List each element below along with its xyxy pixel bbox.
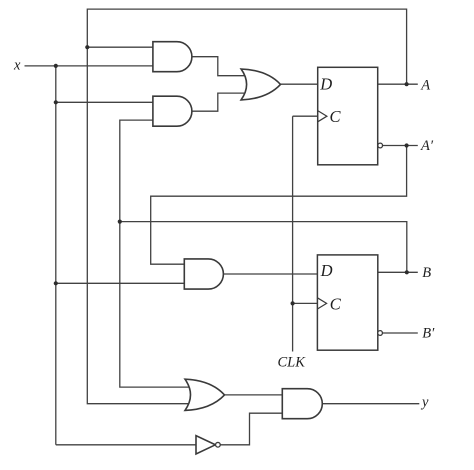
wire: CLK branch to FF2 C input bbox=[293, 302, 318, 304]
node: x to AND3 junction bbox=[54, 281, 58, 285]
svg-text:D: D bbox=[320, 261, 333, 280]
wire: OR2 output to AND4 top input bbox=[225, 394, 283, 396]
node: A to AND1 junction bbox=[85, 45, 89, 49]
flip-flop FF2 (B) box bbox=[317, 255, 377, 350]
wire: FF1 Q output to node A bbox=[378, 83, 418, 85]
svg-text:x: x bbox=[13, 58, 21, 74]
AND gate G2 (inputs x, B) bbox=[153, 96, 192, 126]
wire: A rail down left side to OR2 bbox=[87, 47, 191, 404]
svg-text:A: A bbox=[420, 77, 430, 93]
wire: OR1 output to FF1 D input bbox=[281, 83, 318, 85]
wire: top feedback rail (node A across top) bbox=[87, 9, 406, 84]
svg-text:D: D bbox=[319, 74, 332, 93]
FF1 Q' output bubble bbox=[378, 143, 383, 148]
wire: FF1 Q' bubble to node A' bbox=[383, 145, 418, 147]
flip-flop FF1 (A) box bbox=[318, 67, 378, 165]
inverter G7 output bubble bbox=[216, 442, 221, 447]
wire: FF2 Q' bubble to node B' bbox=[383, 332, 418, 334]
wire: x rail to inverter input bbox=[56, 444, 196, 446]
node B junction bbox=[405, 270, 409, 274]
svg-text:y: y bbox=[420, 395, 429, 411]
wire: B rail vertical to AND2 bottom input bbox=[120, 120, 191, 387]
wire: inverter output jog to AND4 bottom input bbox=[220, 413, 282, 445]
wire: B feedback from B rail to node B bbox=[120, 222, 407, 273]
wire: left rail node x (vertical) bbox=[55, 66, 57, 445]
AND gate G4 (inputs A', x) bbox=[184, 259, 223, 289]
FF2 clock triangle bbox=[317, 298, 326, 309]
svg-text:B′: B′ bbox=[422, 326, 435, 342]
wire: CLK to FF1 C input bbox=[293, 115, 318, 117]
wire: A' feedback down, left, to AND3 top input bbox=[151, 146, 407, 265]
wire: AND3 output to FF2 D input bbox=[223, 273, 317, 275]
wire: input x stub bbox=[25, 65, 153, 67]
svg-text:B: B bbox=[422, 265, 431, 281]
node A' junction bbox=[405, 143, 409, 147]
FF1 clock triangle bbox=[318, 111, 327, 122]
wire: FF2 Q output to node B bbox=[378, 271, 418, 273]
AND gate G6 (output y) bbox=[282, 389, 322, 419]
OR gate G3 (inputs from G1, G2) bbox=[241, 69, 280, 100]
inverter G7 triangle bbox=[196, 436, 215, 454]
OR gate G5 (inputs B, A) bbox=[185, 379, 225, 410]
node: x input junction bbox=[54, 64, 58, 68]
wire: CLK vertical line bbox=[292, 116, 294, 351]
svg-text:C: C bbox=[330, 107, 342, 126]
wire: AND2 top input from x rail bbox=[56, 101, 153, 103]
FF2 Q' output bubble bbox=[378, 331, 383, 336]
node: B rail junction bbox=[118, 220, 122, 224]
AND gate G1 (inputs A, x) bbox=[153, 42, 192, 72]
wire: AND4 output to y bbox=[322, 403, 419, 405]
svg-text:CLK: CLK bbox=[278, 355, 307, 371]
wire: AND2 output jog to OR1 bottom input bbox=[192, 93, 247, 111]
wire: x rail to AND3 bottom input bbox=[56, 282, 185, 284]
node: CLK junction bbox=[291, 301, 295, 305]
node A junction bbox=[405, 82, 409, 86]
wire: AND1 output jog to OR1 top input bbox=[192, 57, 247, 76]
wire: AND1 top input from A rail bbox=[87, 46, 153, 48]
svg-text:A′: A′ bbox=[420, 138, 434, 154]
svg-text:C: C bbox=[330, 294, 342, 313]
node: x to AND2 junction bbox=[54, 100, 58, 104]
